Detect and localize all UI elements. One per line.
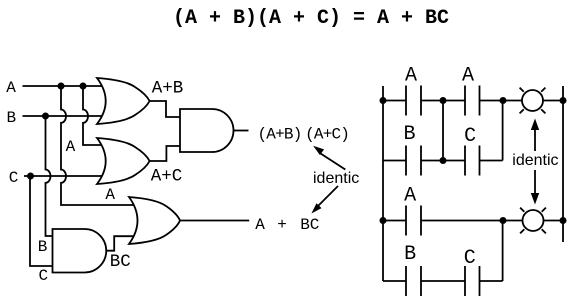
svg-text:A: A [6, 79, 16, 97]
svg-text:A: A [462, 65, 474, 88]
svg-text:A+B: A+B [152, 79, 184, 99]
svg-text:identic: identic [313, 170, 359, 187]
svg-text:B: B [7, 109, 17, 127]
svg-text:A: A [105, 186, 115, 204]
svg-text:(A+C): (A+C) [305, 125, 349, 143]
svg-text:C: C [464, 247, 476, 270]
svg-text:B: B [404, 243, 416, 266]
svg-text:A: A [66, 138, 76, 156]
svg-text:+: + [277, 216, 287, 234]
svg-text:A+C: A+C [151, 167, 183, 187]
svg-text:(A + B)(A + C) = A + BC: (A + B)(A + C) = A + BC [173, 7, 449, 30]
svg-text:A: A [255, 216, 265, 234]
svg-text:A: A [404, 184, 416, 207]
svg-text:C: C [464, 125, 476, 148]
svg-text:B: B [404, 123, 416, 146]
svg-text:BC: BC [110, 252, 131, 272]
svg-text:identic: identic [512, 152, 558, 169]
svg-text:A: A [405, 65, 417, 88]
svg-text:BC: BC [300, 216, 319, 234]
svg-text:C: C [39, 267, 49, 285]
svg-text:(A+B): (A+B) [258, 125, 302, 143]
svg-text:B: B [38, 238, 48, 256]
svg-text:C: C [9, 169, 19, 187]
